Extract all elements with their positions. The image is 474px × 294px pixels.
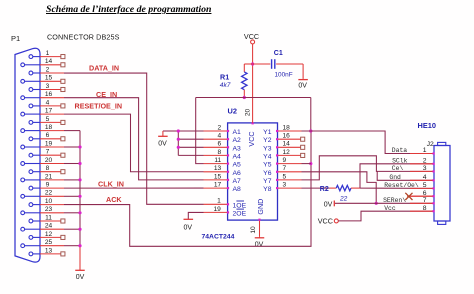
svg-text:0V: 0V — [255, 242, 264, 249]
svg-text:25: 25 — [45, 239, 53, 246]
connector J2 pin 7 net SERen\ — [410, 202, 434, 204]
svg-text:GND: GND — [256, 199, 265, 215]
svg-text:HE10: HE10 — [418, 121, 437, 130]
svg-text:J2: J2 — [427, 141, 434, 148]
svg-text:P1: P1 — [11, 34, 20, 43]
svg-text:Y6: Y6 — [263, 170, 272, 177]
svg-text:17: 17 — [214, 182, 222, 189]
connector P1 pin 13 — [29, 252, 33, 256]
svg-text:Schéma de l’interface de progr: Schéma de l’interface de programmation — [46, 4, 211, 15]
wire CE_IN (P1.16 to U2 A7) — [64, 98, 204, 180]
ground 0V at U2 inputs — [162, 131, 164, 136]
svg-text:100nF: 100nF — [275, 72, 293, 79]
svg-text:15: 15 — [45, 75, 53, 82]
ground 0V right of C1 — [302, 78, 304, 81]
wire R2 to J2 Reset/Oe — [360, 187, 434, 189]
svg-text:7: 7 — [46, 149, 50, 156]
wire pull-up to U2 A5 — [196, 98, 204, 164]
wire 0V bus to U2 A1-A4 — [163, 130, 178, 132]
svg-text:1: 1 — [217, 198, 221, 205]
svg-text:U2: U2 — [228, 107, 237, 116]
svg-text:19: 19 — [45, 140, 53, 147]
wire pull-up net (R1 row) — [196, 97, 311, 99]
svg-text:4k7: 4k7 — [220, 82, 231, 89]
svg-text:Vcc: Vcc — [384, 205, 396, 212]
IC U2 pin 7 output Y6 — [278, 171, 302, 173]
svg-text:11: 11 — [214, 157, 221, 164]
svg-text:Y5: Y5 — [263, 162, 272, 169]
wire C1 to ground — [302, 64, 304, 79]
svg-text:21: 21 — [45, 173, 53, 180]
wire J2 pin 6 stub — [407, 195, 434, 197]
svg-text:VCC: VCC — [247, 131, 256, 146]
svg-text:Y8: Y8 — [263, 186, 272, 193]
wire DATA_IN (P1.2 to U2 1OE) — [64, 73, 204, 204]
ground 0V below P1 — [79, 268, 81, 270]
IC U2 pin 8 input A4 — [204, 154, 228, 156]
svg-text:10: 10 — [250, 226, 257, 234]
connector J2 pin 1 net Data — [410, 153, 434, 155]
svg-text:0V: 0V — [158, 140, 167, 147]
svg-text:0V: 0V — [76, 274, 85, 281]
connector P1 pin 18 — [21, 129, 25, 133]
svg-text:A8: A8 — [233, 186, 242, 193]
svg-text:18: 18 — [283, 124, 291, 131]
svg-text:Gnd: Gnd — [389, 174, 401, 181]
capacitor C1 — [253, 63, 271, 65]
connector P1 pin 11 — [29, 219, 33, 223]
wire VCC rail down to U2 pin 20 — [252, 44, 254, 123]
svg-text:Ce\: Ce\ — [392, 165, 404, 172]
svg-text:CLK_IN: CLK_IN — [98, 180, 124, 189]
svg-text:13: 13 — [214, 165, 222, 172]
connector P1 pin 16 — [21, 96, 25, 100]
svg-text:A4: A4 — [233, 153, 242, 160]
connector P1 pin 12 — [29, 236, 33, 240]
svg-text:74ACT244: 74ACT244 — [202, 233, 235, 240]
IC U2 pin 6 input A3 — [204, 146, 228, 148]
svg-text:2: 2 — [46, 66, 50, 73]
svg-text:SERen\: SERen\ — [383, 197, 406, 204]
svg-text:1: 1 — [423, 147, 427, 154]
svg-text:DATA_IN: DATA_IN — [89, 63, 119, 72]
svg-text:A3: A3 — [233, 145, 242, 152]
IC U2 pin 17 input A8 — [204, 187, 228, 189]
wire VCC to J2 Vcc pin 8 — [338, 211, 434, 221]
svg-text:SClk: SClk — [392, 157, 408, 164]
IC U2 pin 3 output Y8 — [278, 187, 302, 189]
svg-text:8: 8 — [218, 149, 222, 156]
connector J2 pin 4 net Gnd — [410, 179, 434, 181]
svg-text:6: 6 — [46, 132, 50, 139]
IC U2 pin 9 output Y5 — [278, 163, 302, 165]
wire SERen row — [335, 202, 434, 204]
connector P1 pin 9 — [29, 186, 33, 190]
IC U2 pin 5 output Y7 — [278, 179, 302, 181]
connector P1 pin 20 — [21, 162, 25, 166]
IC U2 pin 1 enable 1OE — [204, 203, 228, 205]
svg-text:Data: Data — [392, 147, 408, 154]
wire ACK (P1.10 down and along bottom) — [64, 131, 311, 246]
svg-text:1: 1 — [46, 50, 50, 57]
svg-text:3: 3 — [46, 83, 50, 90]
svg-text:14: 14 — [45, 58, 53, 65]
connector J2 pin 3 net Ce\ — [410, 170, 434, 172]
svg-text:2OE: 2OE — [233, 210, 247, 217]
connector P1 pin 7 — [29, 153, 33, 157]
svg-text:Reset/Oe\: Reset/Oe\ — [384, 182, 419, 189]
connector P1 pin 2 — [29, 71, 33, 75]
svg-text:R1: R1 — [220, 72, 229, 81]
svg-text:A2: A2 — [233, 137, 242, 144]
svg-text:15: 15 — [214, 173, 222, 180]
svg-text:2: 2 — [423, 157, 427, 164]
connector P1 pin 19 — [21, 145, 25, 149]
wire Y6 staircase to SERen — [302, 172, 377, 204]
svg-text:VCC: VCC — [318, 217, 333, 226]
connector P1 pin 17 — [21, 112, 25, 116]
connector P1 pin 5 — [29, 121, 33, 125]
svg-text:16: 16 — [283, 133, 291, 140]
svg-text:RESET/OE_IN: RESET/OE_IN — [75, 102, 123, 111]
wire Y5 to data net — [302, 163, 311, 165]
wire CLK_IN (P1.9 to U2 A8) — [64, 187, 204, 189]
svg-text:5: 5 — [423, 182, 427, 189]
node Y1 data junction — [309, 129, 312, 132]
connector P1 pin 23 — [21, 211, 25, 215]
svg-text:7: 7 — [283, 165, 287, 172]
IC U2 pin 15 input A7 — [204, 179, 228, 181]
IC U2 pin 12 output Y4 — [278, 154, 301, 156]
svg-text:17: 17 — [45, 108, 53, 115]
node VCC junction — [251, 62, 254, 65]
ground 0V below U2 GND — [259, 236, 261, 238]
svg-text:0V: 0V — [324, 202, 333, 209]
node Y5 tap junction — [309, 162, 312, 165]
connector P1 body — [15, 48, 40, 262]
svg-text:4: 4 — [423, 174, 427, 181]
svg-text:A6: A6 — [233, 170, 242, 177]
connector P1 pin 22 — [21, 194, 25, 198]
svg-text:12: 12 — [283, 149, 291, 156]
wire Gnd tap from Ce row — [377, 171, 434, 180]
wire 2OE to ground — [188, 212, 203, 219]
IC U2 pin 16 output Y2 — [278, 138, 301, 140]
connector J2 pin 8 net Vcc — [410, 210, 434, 212]
svg-text:Y1: Y1 — [263, 129, 272, 136]
no-connect X on J2 pin 6 — [405, 193, 412, 200]
IC U2 pin 13 input A6 — [204, 171, 228, 173]
connector J2 pin 2 net SClk — [410, 163, 434, 165]
IC U2 pin 4 input A2 — [204, 138, 228, 140]
svg-text:2: 2 — [218, 124, 222, 131]
connector J2 pin 6 (n/c) — [410, 195, 434, 197]
svg-text:23: 23 — [45, 206, 53, 213]
svg-text:20: 20 — [45, 157, 53, 164]
node SERen junction — [375, 202, 378, 205]
connector P1 pin 6 — [29, 137, 33, 141]
resistor R1 — [243, 64, 245, 72]
svg-text:R2: R2 — [320, 186, 329, 193]
svg-text:3: 3 — [283, 182, 287, 189]
connector P1 pin 15 — [21, 79, 25, 83]
IC U2 pin 19 enable 2OE — [204, 211, 228, 213]
svg-text:Y7: Y7 — [263, 178, 272, 185]
svg-text:5: 5 — [46, 116, 50, 123]
svg-text:Y2: Y2 — [263, 137, 272, 144]
svg-text:3: 3 — [423, 165, 427, 172]
connector P1 pin 4 — [29, 104, 33, 108]
svg-text:6: 6 — [218, 141, 222, 148]
wire P1 ground bus (pins 18-25) — [79, 131, 81, 246]
svg-text:6: 6 — [423, 190, 427, 197]
svg-text:0V: 0V — [184, 224, 193, 231]
IC U2 pin 14 output Y3 — [278, 146, 301, 148]
IC U2 pin 11 input A5 — [204, 163, 228, 165]
connector P1 pin 10 — [29, 203, 33, 207]
connector J2 pin 5 net Reset/Oe\ — [410, 187, 434, 189]
IC U2 pin 18 output Y1 — [278, 130, 302, 132]
svg-text:CONNECTOR DB25S: CONNECTOR DB25S — [47, 33, 120, 42]
svg-text:Y3: Y3 — [263, 145, 272, 152]
wire Y8 to R2 — [302, 187, 330, 189]
svg-text:Y4: Y4 — [263, 153, 272, 160]
connector P1 pin 25 — [21, 244, 25, 248]
svg-text:18: 18 — [45, 124, 53, 131]
svg-text:22: 22 — [45, 190, 53, 197]
svg-text:10: 10 — [45, 198, 53, 205]
connector P1 pin 8 — [29, 170, 33, 174]
op-amp none; IC U2 74ACT244 body — [228, 123, 278, 220]
connector P1 pin 3 — [29, 88, 33, 92]
svg-text:8: 8 — [46, 165, 50, 172]
svg-text:20: 20 — [245, 109, 252, 117]
svg-text:9: 9 — [46, 182, 50, 189]
svg-text:A5: A5 — [233, 162, 242, 169]
wire pull-up down to Y1 node — [310, 98, 312, 132]
IC U2 pin 2 input A1 — [204, 130, 228, 132]
svg-text:11: 11 — [45, 214, 52, 221]
svg-text:5: 5 — [283, 173, 287, 180]
node R1 bottom junction — [243, 96, 246, 99]
svg-text:0V: 0V — [298, 82, 307, 89]
wire Y7 up-and-over to Ce — [302, 156, 434, 180]
svg-text:ACK: ACK — [106, 195, 122, 204]
svg-text:19: 19 — [213, 206, 221, 213]
resistor R2 — [330, 187, 336, 189]
svg-text:C1: C1 — [274, 50, 283, 57]
wire VCC junction to R1 top — [244, 63, 252, 65]
svg-text:13: 13 — [45, 247, 53, 254]
IC U2 VCC pin 20 — [252, 122, 254, 124]
svg-text:8: 8 — [423, 205, 427, 212]
svg-text:4: 4 — [218, 133, 222, 140]
svg-text:7: 7 — [423, 197, 427, 204]
connector P1 pin 21 — [21, 178, 25, 182]
wire RESET/OE_IN (P1.17 to U2 A6) — [64, 114, 204, 172]
svg-text:24: 24 — [45, 223, 53, 230]
svg-text:1OE: 1OE — [233, 202, 247, 209]
svg-text:9: 9 — [283, 157, 287, 164]
svg-text:4: 4 — [46, 99, 50, 106]
svg-text:14: 14 — [283, 141, 291, 148]
connector P1 pin 24 — [21, 227, 25, 231]
wire Y1 to J2 Data — [302, 131, 434, 154]
svg-text:12: 12 — [45, 231, 53, 238]
connector P1 pin 14 — [21, 63, 25, 67]
connector J2 body — [434, 146, 450, 222]
ground 0V at 2OE — [184, 218, 194, 220]
connector P1 pin 1 — [29, 55, 33, 59]
wire SClk riser and row — [360, 164, 434, 188]
svg-text:22: 22 — [339, 195, 348, 202]
svg-text:A1: A1 — [233, 129, 242, 136]
IC U2 GND pin 10 — [259, 220, 261, 236]
svg-text:16: 16 — [45, 91, 53, 98]
svg-text:A7: A7 — [233, 178, 242, 185]
